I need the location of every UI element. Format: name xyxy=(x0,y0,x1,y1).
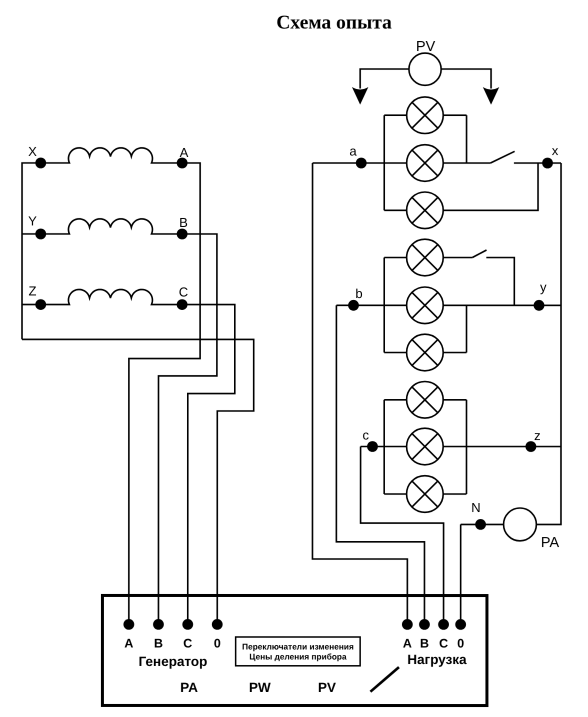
svg-text:x: x xyxy=(552,143,559,158)
panel terminal gen 0 xyxy=(212,619,223,630)
svg-text:B: B xyxy=(420,637,429,651)
labels load A B C 0 xyxy=(403,637,464,651)
wire row a switch to x xyxy=(514,162,561,164)
svg-text:Цены деления прибора: Цены деления прибора xyxy=(249,651,347,661)
wire L9 right lead xyxy=(443,493,466,495)
svg-text:Y: Y xyxy=(28,213,37,228)
lamp L3 xyxy=(407,192,444,229)
panel box xyxy=(102,595,487,705)
generator winding Y-B xyxy=(41,219,182,234)
node c xyxy=(367,441,378,452)
node x xyxy=(542,158,553,169)
wire right trunk x-y-z to PA xyxy=(537,163,561,524)
svg-text:a: a xyxy=(349,144,357,159)
svg-text:Z: Z xyxy=(29,283,37,298)
generator winding Z-C xyxy=(41,289,182,304)
svg-text:C: C xyxy=(183,636,192,650)
wire group2 right bus xyxy=(466,305,468,352)
svg-text:b: b xyxy=(355,286,362,301)
lamp L6 xyxy=(407,334,444,371)
svg-text:c: c xyxy=(363,428,370,443)
wire Z stub xyxy=(22,304,41,306)
wire PV left lead xyxy=(360,69,409,89)
lamp L7 xyxy=(407,382,444,419)
labels gen A B C 0 xyxy=(124,636,220,650)
wire S2 to row b xyxy=(486,258,514,306)
labels PA PW PV xyxy=(180,680,336,695)
wire row c lamp to z xyxy=(443,446,561,448)
wire c trunk to panel C xyxy=(361,447,444,625)
wire neutral bottom rail xyxy=(22,339,254,624)
wire L1 right lead xyxy=(443,114,466,116)
wire group1 right bus xyxy=(466,115,468,163)
wire group3 left bus xyxy=(383,400,385,494)
svg-text:A: A xyxy=(180,145,189,160)
voltmeter PV xyxy=(409,53,441,85)
wire L7 left lead xyxy=(384,399,406,401)
wire a trunk to panel A xyxy=(312,163,407,624)
wire row b main line xyxy=(336,304,406,306)
panel terminal gen C xyxy=(182,619,193,630)
wire phase A down xyxy=(129,163,200,624)
svg-text:Нагрузка: Нагрузка xyxy=(407,652,467,667)
wire L9 left lead xyxy=(384,493,406,495)
wire L6 right lead xyxy=(443,352,466,354)
panel terminal load A xyxy=(402,619,413,630)
wire L4 left lead xyxy=(384,257,406,259)
svg-text:Схема опыта: Схема опыта xyxy=(276,12,392,33)
panel terminal gen B xyxy=(153,619,164,630)
switch info text xyxy=(242,641,354,661)
wire L6 left lead xyxy=(384,352,406,354)
svg-text:Генератор: Генератор xyxy=(139,654,208,669)
svg-text:A: A xyxy=(403,637,412,651)
wire b trunk to panel B xyxy=(336,305,424,624)
wire L3 left lead xyxy=(384,209,406,211)
wire group3 right bus xyxy=(465,400,467,494)
terminal Y xyxy=(35,229,46,240)
wire row a main line xyxy=(313,162,407,164)
node b xyxy=(348,300,359,311)
svg-text:A: A xyxy=(124,636,133,650)
wire PV right lead xyxy=(441,69,491,89)
lamp L2 xyxy=(407,145,444,182)
panel terminal load B xyxy=(419,619,430,630)
wire N to PA xyxy=(461,523,504,525)
terminal A xyxy=(177,158,188,169)
wire Y stub xyxy=(22,233,41,235)
lamp L9 xyxy=(407,476,444,513)
probe arrow left xyxy=(352,87,368,105)
switch info box xyxy=(236,637,361,666)
wire phase C down xyxy=(182,305,235,625)
node z xyxy=(525,441,536,452)
lamp L4 xyxy=(407,239,444,276)
svg-text:C: C xyxy=(179,284,188,299)
wire generator neutral left bus xyxy=(22,163,41,339)
node N xyxy=(475,519,486,530)
wire group1 left bus xyxy=(383,115,385,210)
lamp L8 xyxy=(407,428,444,465)
panel terminal gen A xyxy=(123,619,134,630)
switch S2 blade xyxy=(472,250,486,258)
node a xyxy=(356,158,367,169)
terminal Z xyxy=(35,299,46,310)
switch S1 blade xyxy=(490,151,514,163)
selector slash xyxy=(370,667,399,692)
wire phase B down xyxy=(158,234,216,624)
probe arrow right xyxy=(483,87,499,105)
wire row c main line xyxy=(361,446,407,448)
node y xyxy=(534,300,545,311)
svg-text:0: 0 xyxy=(457,637,464,651)
ammeter PA xyxy=(504,508,537,541)
wire row a lamp to switch xyxy=(443,162,490,164)
svg-text:z: z xyxy=(534,428,541,443)
wire L1 left lead xyxy=(384,114,406,116)
svg-text:PW: PW xyxy=(249,680,271,695)
generator winding X-A xyxy=(41,148,182,163)
wire group2 left bus xyxy=(383,258,385,353)
wire row b lamp to y xyxy=(443,304,561,306)
svg-text:X: X xyxy=(28,144,37,159)
panel terminal load C xyxy=(438,619,449,630)
svg-text:y: y xyxy=(540,280,547,295)
svg-text:PA: PA xyxy=(541,535,560,551)
wire L7 right lead xyxy=(443,399,466,401)
svg-text:0: 0 xyxy=(214,636,221,650)
svg-text:Переключатели изменения: Переключатели изменения xyxy=(242,641,354,651)
terminal X xyxy=(35,158,46,169)
svg-text:PV: PV xyxy=(318,680,336,695)
wire N down to panel 0 xyxy=(460,524,462,624)
svg-text:B: B xyxy=(154,636,163,650)
svg-text:N: N xyxy=(471,500,480,515)
lamp L1 xyxy=(407,97,444,134)
svg-text:C: C xyxy=(439,637,448,651)
wire L3 right lead xyxy=(443,163,538,210)
terminal C xyxy=(177,299,188,310)
svg-text:PA: PA xyxy=(180,680,198,695)
svg-text:B: B xyxy=(179,215,188,230)
lamp L5 xyxy=(407,287,444,324)
terminal B xyxy=(177,229,188,240)
wire L4 right lead to switch xyxy=(443,257,472,259)
panel terminal load 0 xyxy=(455,619,466,630)
